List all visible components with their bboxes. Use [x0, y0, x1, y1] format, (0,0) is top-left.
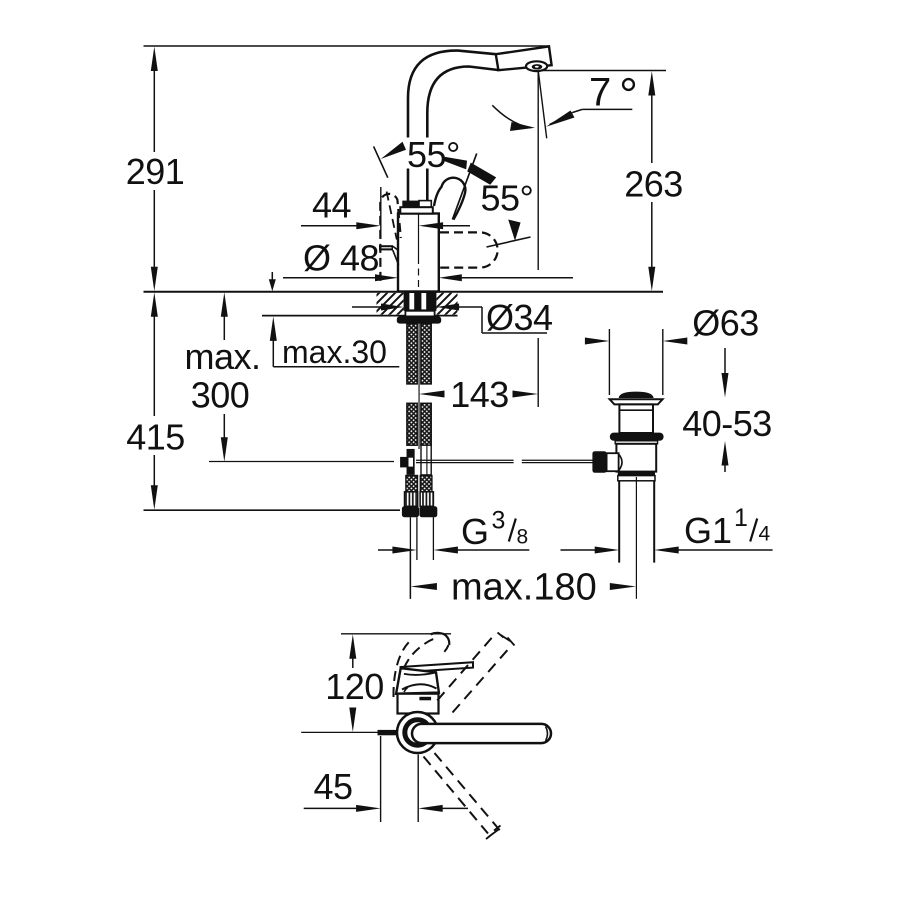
angle 55 upper label	[404, 134, 463, 175]
dimension 45	[304, 736, 468, 822]
dimension G one and quarter	[561, 504, 773, 554]
pop-up drain assembly	[592, 392, 663, 599]
braided supply hoses upper segment	[407, 324, 431, 384]
dimension 291	[126, 47, 185, 292]
handle open position solid capsule	[434, 178, 465, 220]
braided supply hoses lower segment	[407, 403, 431, 445]
svg-text:120: 120	[325, 666, 384, 707]
front view handle dome	[396, 668, 439, 694]
svg-text:G1: G1	[684, 510, 732, 551]
dimension max.180	[410, 549, 636, 609]
dimension diameter 63	[585, 303, 759, 396]
handle swing silhouette left dashed	[380, 192, 401, 281]
svg-text:55°: 55°	[481, 178, 534, 219]
angle 7 arc with arrows	[492, 105, 574, 131]
dimension 263	[624, 71, 683, 291]
faucet body center line	[418, 214, 420, 291]
dimension 415	[126, 292, 185, 510]
svg-text:G: G	[461, 511, 489, 552]
svg-text:8: 8	[517, 526, 529, 549]
svg-text:max.: max.	[184, 336, 260, 377]
outlet level extension line	[537, 70, 666, 72]
pop-up rod cross fitting	[400, 450, 414, 474]
angle 7 label and leader	[573, 71, 634, 115]
pop-up rod horizontal	[416, 460, 593, 462]
angle 55 lower label	[481, 178, 534, 219]
hose end braid stubs	[406, 476, 432, 492]
svg-text:263: 263	[624, 164, 683, 205]
svg-text:143: 143	[450, 374, 509, 415]
angle 55 lower flag	[487, 220, 531, 248]
countertop bottom line	[262, 315, 458, 317]
mounting washer and nut	[397, 316, 441, 323]
front view handle blade	[401, 662, 473, 672]
cartridge cap	[400, 201, 433, 214]
top extension line at spout top	[144, 45, 550, 47]
extension lines below hoses	[410, 517, 433, 599]
angle 7 tilted line	[538, 71, 547, 139]
front view spout silhouette dashed	[393, 633, 449, 697]
pop-up rod reference line	[209, 461, 394, 463]
angle 55 upper left boundary and flag	[374, 142, 406, 178]
dimension G three eighth	[378, 507, 529, 554]
angle 55 crossing flags	[444, 154, 497, 220]
hose center line	[418, 318, 420, 449]
dimension 143	[419, 374, 538, 415]
svg-text:3: 3	[492, 507, 506, 535]
hose tube right below braid	[421, 445, 431, 475]
countertop reference line	[144, 291, 664, 293]
dimension 120	[325, 634, 451, 732]
svg-text:max.30: max.30	[282, 334, 387, 370]
svg-text:Ø63: Ø63	[692, 303, 759, 344]
svg-text:7: 7	[589, 71, 611, 115]
svg-text:40-53: 40-53	[682, 403, 772, 444]
front view lever rod horizontal	[412, 724, 551, 743]
svg-text:1: 1	[734, 504, 748, 532]
svg-text:Ø 48: Ø 48	[303, 238, 379, 279]
spout head	[496, 46, 552, 70]
front view faucet body	[398, 694, 439, 714]
dimension max.300	[184, 292, 260, 462]
dimension max.30	[269, 272, 400, 370]
dimension 44	[301, 185, 470, 240]
svg-text:45: 45	[313, 766, 352, 807]
handle swing silhouette lower dashed	[440, 232, 498, 267]
dimension diameter 48	[283, 238, 573, 282]
dimension diameter 34	[352, 297, 553, 338]
angle 7 reference vertical line	[537, 71, 539, 407]
svg-text:300: 300	[191, 375, 250, 416]
spout tube	[408, 51, 498, 201]
dimension 40-53	[682, 348, 772, 472]
faucet body	[398, 214, 439, 292]
front view pop-up rod stub	[301, 730, 397, 735]
svg-text:44: 44	[312, 185, 351, 226]
aerator outlet	[526, 61, 547, 71]
countertop hatching left	[377, 293, 404, 315]
svg-text:55°: 55°	[407, 134, 460, 175]
svg-text:max.180: max.180	[451, 567, 597, 609]
svg-text:291: 291	[126, 151, 185, 192]
front view lever up position dashed	[437, 633, 514, 713]
front view swivel hub	[397, 712, 438, 753]
handle stub side view	[379, 245, 399, 265]
threaded shank through countertop	[404, 292, 437, 316]
svg-text:415: 415	[126, 417, 185, 458]
front view lever down position dashed	[424, 753, 501, 839]
svg-text:4: 4	[759, 523, 771, 546]
svg-text:Ø34: Ø34	[486, 297, 553, 338]
bottom reference line	[144, 509, 401, 511]
hose end caps G three eighth	[402, 506, 437, 517]
countertop hatching right	[437, 293, 458, 315]
hose connector ribbed nuts	[405, 492, 434, 507]
